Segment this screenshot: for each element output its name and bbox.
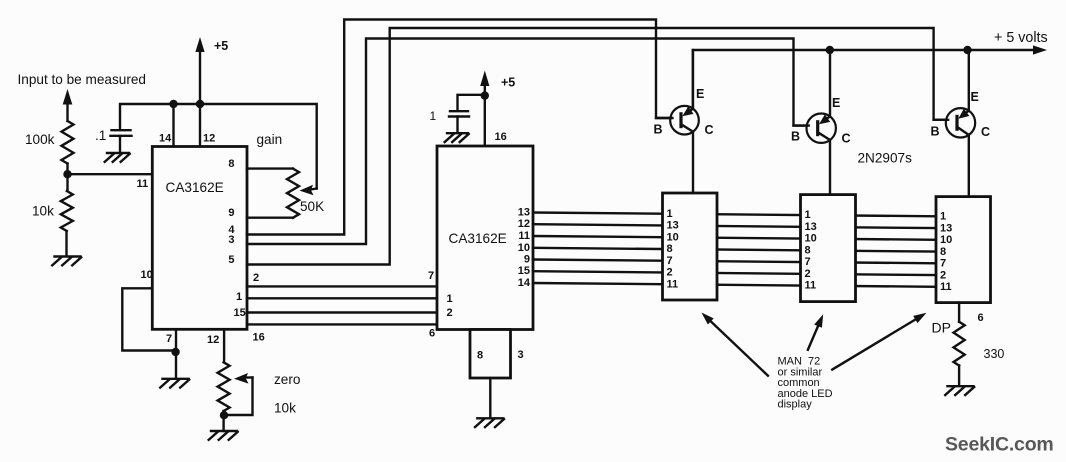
svg-text:10: 10 bbox=[667, 231, 679, 243]
display DS3 MAN72 bbox=[936, 197, 991, 303]
svg-text:7: 7 bbox=[667, 255, 673, 267]
wire segment bus 10 bbox=[533, 248, 936, 252]
wire pin 10 loop bbox=[122, 288, 175, 350]
ground under 330 bbox=[945, 386, 974, 395]
svg-text:12: 12 bbox=[203, 133, 215, 145]
svg-text:50K: 50K bbox=[300, 199, 324, 214]
svg-text:9: 9 bbox=[228, 207, 234, 219]
wire pin 7 stem bbox=[175, 329, 177, 378]
svg-text:11: 11 bbox=[518, 230, 530, 242]
svg-text:C: C bbox=[842, 132, 851, 146]
wire pin1 to U2 pin1 bbox=[247, 297, 437, 299]
wire 330 to ground bbox=[958, 366, 960, 387]
svg-text:2: 2 bbox=[667, 267, 673, 279]
wire pin 14 bbox=[172, 104, 174, 147]
svg-text:1: 1 bbox=[667, 208, 673, 220]
svg-text:14: 14 bbox=[518, 277, 531, 289]
svg-text:1: 1 bbox=[430, 109, 437, 123]
svg-text:2: 2 bbox=[253, 272, 259, 284]
svg-text:8: 8 bbox=[477, 350, 483, 362]
svg-text:2: 2 bbox=[805, 268, 811, 280]
svg-text:11: 11 bbox=[667, 278, 679, 290]
svg-text:14: 14 bbox=[159, 133, 172, 145]
wire pin 4 to Q1 base bbox=[247, 20, 671, 235]
svg-text:7: 7 bbox=[428, 270, 434, 282]
wire 10k to ground bbox=[65, 231, 67, 256]
junction Q3 emitter bbox=[963, 46, 971, 54]
wire pin16 to U2 pin6 bbox=[247, 323, 437, 325]
display DS1 MAN72 bbox=[663, 193, 718, 300]
svg-text:10: 10 bbox=[805, 233, 817, 245]
wire pin 16 IC2 bbox=[484, 96, 486, 146]
svg-text:2: 2 bbox=[447, 307, 453, 319]
+5 volts arrowhead bbox=[1033, 45, 1047, 54]
ground under pin 7 bbox=[160, 379, 189, 388]
wire +5V rail bbox=[693, 50, 1036, 109]
wire segment bus 15 bbox=[533, 271, 936, 275]
node A junction bbox=[63, 170, 71, 178]
wire segment bus 13 bbox=[533, 213, 936, 217]
svg-text:12: 12 bbox=[518, 218, 530, 230]
svg-text:11: 11 bbox=[805, 280, 817, 292]
svg-text:7: 7 bbox=[166, 333, 172, 345]
svg-text:2: 2 bbox=[940, 269, 946, 281]
svg-text:6: 6 bbox=[978, 312, 984, 324]
transistor Q3 2N2907 bbox=[931, 50, 991, 197]
wire DS3 pin6 stem bbox=[958, 303, 960, 322]
svg-text:E: E bbox=[832, 96, 840, 110]
svg-text:E: E bbox=[971, 90, 979, 104]
wire segment bus 9 bbox=[533, 260, 936, 264]
svg-text:DP: DP bbox=[932, 320, 951, 336]
arrow note to DS1 bbox=[701, 313, 768, 377]
svg-text:16: 16 bbox=[495, 131, 507, 143]
svg-text:10k: 10k bbox=[274, 401, 296, 416]
svg-text:1: 1 bbox=[805, 209, 811, 221]
svg-text:100k: 100k bbox=[25, 132, 55, 147]
resistor R2 10k bbox=[32, 174, 73, 231]
svg-text:display: display bbox=[778, 399, 813, 411]
svg-text:.1: .1 bbox=[95, 128, 106, 143]
+5 arrow at IC1 bbox=[195, 37, 228, 104]
svg-text:SeekIC.com: SeekIC.com bbox=[945, 434, 1054, 456]
svg-text:+5: +5 bbox=[501, 76, 515, 90]
op-amp / ADC U1 CA3162E box bbox=[152, 147, 247, 330]
svg-text:B: B bbox=[791, 130, 800, 144]
wire node to pin 11 bbox=[68, 173, 153, 175]
wire pin2 to U2 pin7 bbox=[247, 285, 437, 287]
svg-text:10: 10 bbox=[518, 242, 530, 254]
svg-text:13: 13 bbox=[518, 207, 530, 219]
junction pin7 bbox=[171, 348, 179, 356]
svg-text:1: 1 bbox=[447, 293, 453, 305]
wire segment bus 11 bbox=[533, 236, 936, 240]
svg-text:330: 330 bbox=[984, 347, 1005, 361]
ground under 10k bbox=[52, 257, 81, 266]
junction Q2 emitter bbox=[826, 46, 834, 54]
svg-text:10: 10 bbox=[940, 234, 952, 246]
+5 arrow at IC2 bbox=[480, 71, 515, 96]
wire pin 8 bbox=[247, 167, 293, 169]
wire U2 pin8 to ground bbox=[489, 378, 491, 418]
svg-text:CA3162E: CA3162E bbox=[449, 231, 507, 246]
svg-text:15: 15 bbox=[518, 265, 530, 277]
svg-text:8: 8 bbox=[667, 243, 673, 255]
svg-text:11: 11 bbox=[137, 178, 149, 190]
resistor R1 100k bbox=[25, 121, 74, 164]
transistor Q1 2N2907 bbox=[654, 50, 714, 193]
svg-text:+ 5 volts: + 5 volts bbox=[994, 30, 1048, 46]
decoder U2 CA3162E box bbox=[437, 146, 533, 330]
transistor Q2 2N2907 bbox=[791, 50, 851, 195]
wire pin 9 bbox=[247, 216, 293, 218]
svg-text:8: 8 bbox=[805, 245, 811, 257]
wire pin 3 to Q2 base bbox=[247, 39, 807, 245]
svg-text:2N2907s: 2N2907s bbox=[858, 151, 913, 166]
svg-text:1: 1 bbox=[940, 211, 946, 223]
wire pin15 to U2 pin2 bbox=[247, 311, 437, 313]
svg-text:15: 15 bbox=[234, 307, 246, 319]
svg-text:B: B bbox=[654, 123, 663, 137]
junction pin14 top bbox=[169, 100, 177, 108]
svg-text:7: 7 bbox=[940, 258, 946, 270]
svg-text:11: 11 bbox=[940, 281, 952, 293]
svg-text:zero: zero bbox=[274, 372, 300, 387]
note MAN 72 text bbox=[778, 356, 833, 411]
ground under C2 bbox=[445, 133, 469, 142]
svg-text:1: 1 bbox=[236, 291, 242, 303]
resistor R4 330 bbox=[953, 322, 1004, 366]
svg-text:B: B bbox=[931, 125, 940, 139]
svg-text:16: 16 bbox=[253, 332, 265, 344]
arrow note to DS2 bbox=[807, 314, 823, 351]
arrow note to DS3 bbox=[831, 313, 926, 370]
svg-text:6: 6 bbox=[429, 328, 435, 340]
svg-text:10: 10 bbox=[141, 269, 153, 281]
ground under C1 bbox=[105, 153, 130, 162]
svg-text:7: 7 bbox=[805, 256, 811, 268]
wire pin 12 stem bbox=[223, 329, 225, 362]
svg-text:C: C bbox=[981, 125, 990, 139]
wire divider to node bbox=[66, 164, 68, 175]
wire segment bus 14 bbox=[533, 283, 936, 287]
svg-text:gain: gain bbox=[257, 132, 283, 147]
svg-text:13: 13 bbox=[940, 222, 952, 234]
display DS2 MAN72 bbox=[801, 195, 856, 302]
svg-text:C: C bbox=[705, 123, 714, 137]
svg-text:CA3162E: CA3162E bbox=[166, 180, 224, 195]
capacitor C2 1 bbox=[430, 95, 485, 133]
wire top rail IC1 (cap/pins 14,12 to 50K wiper drop) bbox=[120, 104, 317, 189]
svg-text:9: 9 bbox=[524, 254, 530, 266]
svg-text:5: 5 bbox=[228, 254, 234, 266]
wire pin 5 to Q3 base bbox=[247, 28, 946, 265]
svg-text:13: 13 bbox=[667, 220, 679, 232]
potentiometer zero 10k bbox=[218, 362, 301, 431]
svg-text:3: 3 bbox=[518, 349, 524, 361]
svg-text:8: 8 bbox=[940, 246, 946, 258]
input arrow bbox=[63, 89, 73, 121]
wire pin 12 bbox=[199, 104, 201, 147]
svg-text:E: E bbox=[696, 87, 704, 101]
capacitor C1 .1 bbox=[95, 128, 132, 153]
junction pin16 bbox=[481, 91, 489, 99]
svg-text:3: 3 bbox=[228, 234, 234, 246]
svg-text:10k: 10k bbox=[32, 204, 54, 219]
svg-text:12: 12 bbox=[207, 334, 219, 346]
wire segment bus 12 bbox=[533, 224, 936, 228]
ground under zero pot bbox=[209, 431, 238, 440]
pin 8 sub-box U2 bbox=[470, 330, 511, 379]
svg-text:8: 8 bbox=[228, 158, 234, 170]
potentiometer 50K bbox=[287, 169, 324, 218]
junction pin12 top bbox=[196, 100, 204, 108]
svg-text:13: 13 bbox=[805, 221, 817, 233]
svg-text:Input to be measured: Input to be measured bbox=[18, 72, 146, 87]
ground under U2 bbox=[475, 418, 504, 427]
svg-text:+5: +5 bbox=[214, 39, 228, 53]
